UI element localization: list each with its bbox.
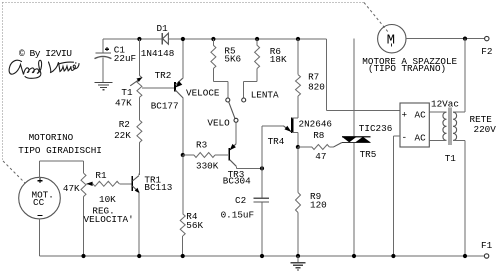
ground symbol (bottom rail) [297, 256, 299, 263]
wire: motor M to terminal F2 [406, 38, 485, 40]
page border (dotted top edge) [3, 2, 365, 4]
potentiometer 47K (speed set) [83, 161, 85, 173]
trimmer T1 47K [138, 39, 140, 75]
node: junction UJT base1 / R8 / R9 [296, 145, 300, 149]
wire: top positive supply rail [103, 38, 326, 40]
capacitor C2 0.15uF [261, 168, 263, 197]
ground symbol (C1) [95, 83, 113, 90]
svg-text:R2: R2 [119, 119, 130, 130]
wire: TR3 collector to C2 node [235, 166, 237, 168]
node: rail junction (TR1 emitter) [137, 254, 141, 258]
svg-text:T1: T1 [121, 87, 133, 98]
node: rail junction (triac MT1) [352, 254, 356, 258]
resistor R1 10K [93, 181, 120, 186]
svg-text:F1: F1 [481, 240, 493, 251]
wire: TR2 collector down to R3/R4 node [182, 98, 184, 155]
svg-text:TIC236: TIC236 [359, 123, 392, 134]
transistor TR1 BC113 (NPN) [131, 176, 133, 191]
svg-text:TR2: TR2 [155, 70, 172, 81]
svg-text:F2: F2 [481, 46, 492, 57]
resistor R3 330K [183, 154, 194, 156]
transformer T1 secondary winding [443, 112, 447, 140]
wire: R8 to triac gate [329, 146, 333, 148]
svg-text:+: + [402, 110, 408, 121]
page border (dotted left edge) [2, 3, 4, 162]
svg-text:R3: R3 [196, 139, 207, 150]
wire: TR1 collector to R2 [138, 173, 140, 175]
wire: R6 to LENTA contact [256, 69, 258, 82]
node: junction at transformer primary tap [463, 37, 467, 41]
resistor R4 56K [182, 155, 184, 214]
terminal F2 [485, 36, 489, 40]
svg-text:© By I2VIU: © By I2VIU [19, 48, 72, 59]
potentiometer wiper arrow [86, 183, 93, 185]
wire: MOT.CC plus to potentiometer [39, 161, 41, 177]
svg-text:22K: 22K [114, 130, 131, 141]
svg-text:VELO: VELO [207, 117, 230, 128]
wire: TR2 emitter to rail [182, 39, 184, 78]
wire: primary to bottom rail [453, 139, 465, 141]
svg-text:12Vac: 12Vac [431, 99, 459, 110]
svg-text:M: M [387, 33, 395, 49]
svg-text:0.15uF: 0.15uF [221, 210, 254, 221]
node: junction TR3 collector / UJT emitter / C2 [260, 166, 264, 170]
svg-text:TR5: TR5 [360, 149, 377, 160]
capacitor C1 22uF electrolytic [102, 39, 104, 53]
svg-text:330K: 330K [196, 160, 219, 171]
wire: bottom rail [40, 255, 485, 257]
resistor R7 820 [297, 39, 299, 75]
plus mark (MOT.CC) [38, 180, 43, 182]
switch VELO pole contact [234, 118, 238, 122]
svg-text:CC: CC [33, 197, 45, 208]
mechanical coupling dashed line to MOT.CC [3, 161, 26, 184]
node: rail junction at R5 [211, 37, 215, 41]
node: rail junction (R4) [181, 254, 185, 258]
node: rail junction (bridge minus) [391, 254, 395, 258]
svg-text:VELOCE: VELOCE [186, 87, 220, 98]
wire: bridge minus to bottom rail [393, 135, 400, 137]
node: rail junction (C2) [260, 254, 264, 258]
wire: motor M to triac MT2 [353, 39, 355, 137]
wire: MOT.CC minus to bottom rail [39, 219, 41, 256]
motor MOT.CC (turntable motor / tacho) [19, 177, 61, 219]
transistor TR4 2N2646 (UJT) [291, 117, 293, 133]
node: rail junction at TR2 emitter [181, 37, 185, 41]
wire: triac MT1 to bottom rail [353, 143, 355, 256]
transistor TR3 BC304 (PNP) [230, 144, 236, 150]
svg-text:5K6: 5K6 [224, 54, 241, 65]
node: rail junction (transformer primary) [463, 254, 467, 258]
svg-text:AC: AC [415, 110, 427, 121]
node: rail junction at R7 [296, 37, 300, 41]
svg-text:R8: R8 [313, 130, 324, 141]
wire: TR1 emitter to bottom rail [138, 193, 140, 256]
svg-text:820: 820 [308, 81, 325, 92]
svg-text:TR4: TR4 [268, 136, 285, 147]
diode D1 1N4148 [161, 33, 163, 45]
svg-text:220V: 220V [474, 124, 497, 135]
node: rail junction at T1 [137, 37, 141, 41]
node: junction TR2 collector / R3 / R4 [181, 153, 185, 157]
terminal F1 [484, 254, 488, 258]
node: rail junction at R6 [255, 37, 259, 41]
resistor R6 18K [256, 39, 258, 45]
svg-text:18K: 18K [270, 54, 287, 65]
resistor R9 120 [297, 147, 299, 193]
signature Crapella Vittorio [9, 60, 79, 78]
svg-text:D1: D1 [157, 23, 169, 34]
transformer T1 primary winding [453, 112, 457, 140]
resistor R8 47 [298, 146, 312, 148]
svg-text:BC304: BC304 [223, 175, 251, 186]
plus polarity mark of C1 [105, 48, 109, 50]
motor M (drill motor) [378, 25, 406, 53]
node: rail junction (pot) [81, 254, 85, 258]
wire: UJT base1 to R8/R9 node [297, 133, 299, 147]
svg-text:(TIPO TRAPANO): (TIPO TRAPANO) [368, 63, 446, 74]
svg-text:R1: R1 [95, 170, 107, 181]
mechanical coupling dashed line to motor M [364, 3, 389, 33]
svg-text:T1: T1 [445, 153, 457, 164]
svg-text:2N2646: 2N2646 [299, 118, 332, 129]
svg-text:47K: 47K [63, 183, 80, 194]
wire: R5 to VELOCE contact [212, 69, 214, 82]
switch contact LENTA [242, 98, 246, 102]
svg-text:10K: 10K [99, 194, 116, 205]
svg-text:47K: 47K [115, 98, 132, 109]
wire: VELO pole to TR3 emitter [235, 122, 237, 143]
svg-text:C2: C2 [235, 195, 246, 206]
svg-text:TIPO GIRADISCHI: TIPO GIRADISCHI [18, 145, 102, 156]
svg-text:LENTA: LENTA [251, 89, 279, 100]
svg-text:BC177: BC177 [151, 101, 179, 112]
minus mark (MOT.CC) [38, 215, 43, 217]
wire: bridge AC to secondary [429, 111, 446, 113]
wire: rail down to rectifier plus output [325, 39, 327, 110]
svg-text:1N4148: 1N4148 [141, 48, 174, 59]
wire: primary to F2 node [453, 111, 465, 113]
switch VELO blade [229, 102, 235, 118]
switch contact VELOCE [226, 98, 230, 102]
resistor R5 5K6 [212, 39, 214, 45]
resistor R2 22K [138, 97, 140, 120]
svg-text:AC: AC [415, 133, 427, 144]
svg-text:MOTORINO: MOTORINO [29, 132, 74, 143]
svg-text:22uF: 22uF [114, 53, 136, 64]
triac TR5 TIC236 [342, 136, 371, 138]
svg-text:47: 47 [315, 151, 326, 162]
transistor TR2 BC177 (PNP) [142, 87, 175, 89]
node: rail junction (R9 / ground) [296, 254, 300, 258]
bridge rectifier (AC + AC -) [400, 103, 429, 147]
svg-text:56K: 56K [186, 220, 203, 231]
wire: UJT emitter [262, 125, 283, 127]
svg-text:BC113: BC113 [144, 182, 172, 193]
svg-text:VELOCITA': VELOCITA' [84, 214, 134, 225]
transformer T1 core [448, 108, 450, 146]
svg-text:-: - [402, 132, 408, 143]
svg-text:120: 120 [310, 200, 327, 211]
